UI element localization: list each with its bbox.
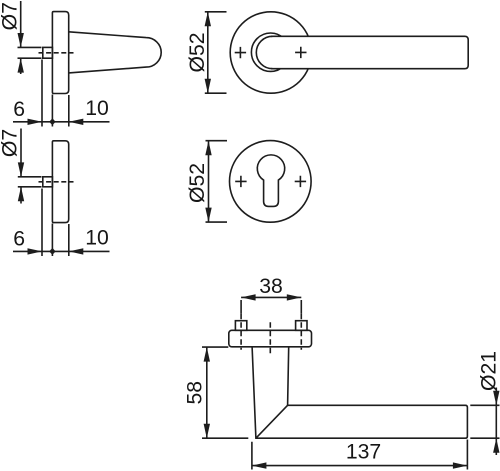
view E: right screw post (296, 321, 307, 331)
svg-text:6: 6 (13, 227, 25, 250)
view D: left cross mark (235, 176, 246, 187)
dimension Ø7 (view B) extension lines (18, 177, 42, 187)
view D: right cross mark (295, 176, 306, 187)
view E: left screw centerline dashed (240, 314, 242, 350)
dimension 38 arrowheads (241, 294, 301, 300)
view A: handle grip side profile (69, 32, 162, 73)
view E: mounting plate (229, 330, 312, 347)
dimension Ø52 (view C) extension stubs (205, 12, 227, 93)
view E: elbow crease (256, 405, 288, 438)
view C: rose front view circle (230, 12, 311, 93)
dimension 58 extension stubs (202, 347, 248, 438)
view D: euro profile cylinder hole (257, 155, 284, 207)
view A: rose side view (top-left) (52, 12, 68, 94)
svg-text:38: 38 (259, 275, 283, 298)
dimension 6/10 (view A) arrowheads and diamond (28, 118, 84, 125)
dimension Ø52 (view D) line (208, 141, 210, 222)
dimension Ø7 (view B) arrowheads (18, 162, 24, 201)
dimension 6/10 (view A) line (13, 121, 110, 123)
dimension Ø21 extension stubs (470, 405, 499, 438)
svg-text:58: 58 (183, 381, 206, 405)
dimension Ø7 (view B) line (20, 129, 22, 204)
dimension 6/10 (view A) extension lines (42, 60, 69, 127)
view E: central centerline dashed (269, 322, 271, 353)
view C: lever white cover (272, 36, 468, 68)
svg-text:Ø52: Ø52 (186, 163, 209, 203)
dimension Ø21 line (495, 388, 497, 456)
view C: right cross mark (295, 47, 306, 58)
view E: left screw post (235, 321, 246, 331)
view E: handle outline (252, 347, 467, 438)
dimension Ø7 (view A) line (20, 1, 22, 74)
svg-text:Ø21: Ø21 (477, 351, 500, 391)
view A: dashed centerline (39, 52, 74, 54)
dimension Ø7 (view A) extension lines (18, 47, 42, 58)
svg-text:6: 6 (13, 98, 25, 121)
view C: neck inner arc (256, 36, 272, 68)
svg-text:10: 10 (85, 226, 109, 249)
dimension 6/10 (view B) arrowheads and diamond (28, 248, 84, 255)
view E: right screw centerline dashed (300, 314, 302, 350)
svg-text:Ø52: Ø52 (186, 32, 209, 72)
svg-text:137: 137 (346, 441, 381, 464)
dimension 6/10 (view B) line (13, 250, 110, 252)
dimension Ø52 (view D) extension stubs (206, 141, 228, 222)
dimension 137 arrowheads (252, 462, 468, 468)
view B: spindle square (43, 177, 53, 187)
view B: dashed centerline (39, 181, 74, 183)
view D: key rose front view circle (229, 141, 311, 223)
dimension Ø52 (view C) line (207, 12, 209, 93)
dimension 137 line (252, 465, 468, 467)
view C: lever outline (271, 36, 468, 68)
dimension 6/10 (view B) extension lines (42, 189, 69, 257)
svg-text:10: 10 (85, 97, 109, 120)
dimension 38 extension lines (241, 300, 301, 314)
view A: spindle square (43, 47, 53, 58)
svg-text:Ø7: Ø7 (0, 129, 21, 157)
dimension 137 extension lines (252, 440, 468, 470)
dimension Ø52 (view D) arrowheads (205, 141, 211, 222)
dimension 58 line (206, 347, 208, 438)
view B: key rose side view (middle-left) (52, 141, 68, 223)
dimension 58 arrowheads (204, 347, 210, 438)
dimension Ø21 arrowheads (493, 391, 499, 453)
view C: left cross mark (235, 47, 246, 58)
view C: neck collar outer circle (251, 33, 289, 71)
dimension 38 line (241, 296, 301, 298)
dimension Ø7 (view A) arrowheads (18, 33, 24, 73)
svg-text:Ø7: Ø7 (0, 2, 21, 30)
dimension Ø52 (view C) arrowheads (205, 12, 211, 93)
